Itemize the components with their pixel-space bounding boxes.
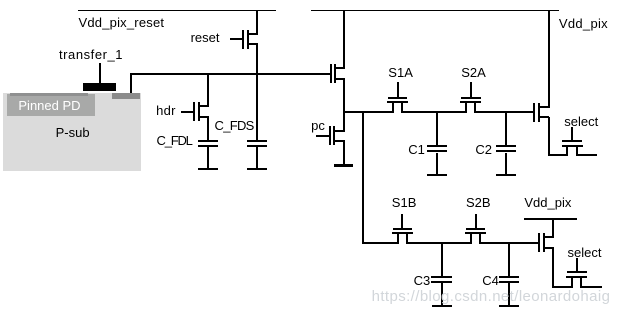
switch select (row A) label [564,115,598,129]
label C_FDS [215,119,254,133]
ground bar of C3 [432,305,452,307]
label C4 [482,274,499,288]
transistor pc [0,0,1,1]
wire: transfer_1 gate stub [99,63,101,84]
wire: row A driver drain up to Vdd_pix rail [548,11,550,108]
wire: hdr drain up to sense bus [207,74,209,107]
net label Vdd_pix_reset [79,16,165,30]
transistor pc label [311,119,325,133]
net label Vdd_pix (top right) [559,17,608,31]
wire: FD sense node bus [130,73,329,75]
watermark [372,290,611,304]
transistor source follower (row A driver) [0,0,1,1]
transistor hdr [0,0,1,1]
switch S1B label [392,196,417,210]
transistor hdr label [156,104,176,118]
transistor reset [0,0,1,1]
capacitor C3 [0,0,1,1]
wire: row B bus segment 1 [362,242,399,244]
wire: Vdd_pix top rail [311,10,559,12]
net label Vdd_pix (row B) [524,196,571,210]
wire: row A bus segment 3 [474,111,533,113]
switch S1A [0,0,1,1]
wire: SF drain up to Vdd_pix rail [343,11,345,69]
wire: row B driver source down to output [552,248,554,288]
wire: row B output left segment [552,286,573,288]
switch S1A label [388,66,413,80]
switch S2B [0,0,1,1]
switch select (row B) label [568,246,602,260]
ground bar of C_FDL [198,168,218,170]
label P-sub [56,126,90,140]
ground bar of C_FDS [247,168,267,170]
switch S1B [0,0,1,1]
wire: Vdd_pix_reset top rail [78,10,277,12]
label C1 [408,143,425,157]
P-sub substrate box [3,93,141,171]
wire: row B bus segment 2 [406,242,472,244]
switch select row A [0,0,1,1]
transistor row A output driver [0,0,1,1]
label transfer_1 [59,48,123,62]
wire: row A output right segment [576,154,597,156]
capacitor C_FDS [0,0,1,1]
wire: SF source down to row A bus [343,79,345,113]
wire: reset drain to Vdd_pix_reset rail [256,11,258,35]
wire: FD node up to sense bus [130,74,132,93]
capacitor C_FDL [0,0,1,1]
switch S2A [0,0,1,1]
ground bar of pc [334,164,353,166]
ground bar of C4 [499,305,519,307]
capacitor C4 [0,0,1,1]
wire: hdr source down to C_FDL [207,116,209,140]
wire: row A bus segment 1 [343,111,395,113]
ground bar of C2 [496,174,516,176]
label C3 [414,274,431,288]
switch select row B [0,0,1,1]
wire: row A output left segment [548,154,569,156]
transfer gate (black poly bar) [83,83,116,91]
wire: reset source down through FD node to C_FDS [256,43,258,139]
wire: row B driver drain to rail [552,220,554,238]
wire: pc drain up to row A bus [343,113,345,132]
transistor reset label [191,31,220,45]
switch S2B label [466,196,491,210]
transistor row B output driver [0,0,1,1]
label C2 [475,143,492,157]
wire: Vdd_pix row B rail [524,218,577,220]
capacitor C1 [0,0,1,1]
wire: drop from row A node to row B bus [362,111,364,244]
floating diffusion n+ bar [112,93,141,99]
wire: row A driver source down to output [548,117,550,156]
wire: pc source down to ground [343,140,345,164]
switch S2A label [461,66,486,80]
ground bar of C1 [427,174,447,176]
wire: row B bus segment 3 [479,242,538,244]
wire: row A bus segment 2 [401,111,467,113]
label C_FDL [157,134,192,148]
label Pinned PD [18,99,80,113]
capacitor C2 [0,0,1,1]
pinning layer strip [10,93,89,97]
Pinned PD region [7,94,95,116]
wire: row B output right segment [580,286,602,288]
